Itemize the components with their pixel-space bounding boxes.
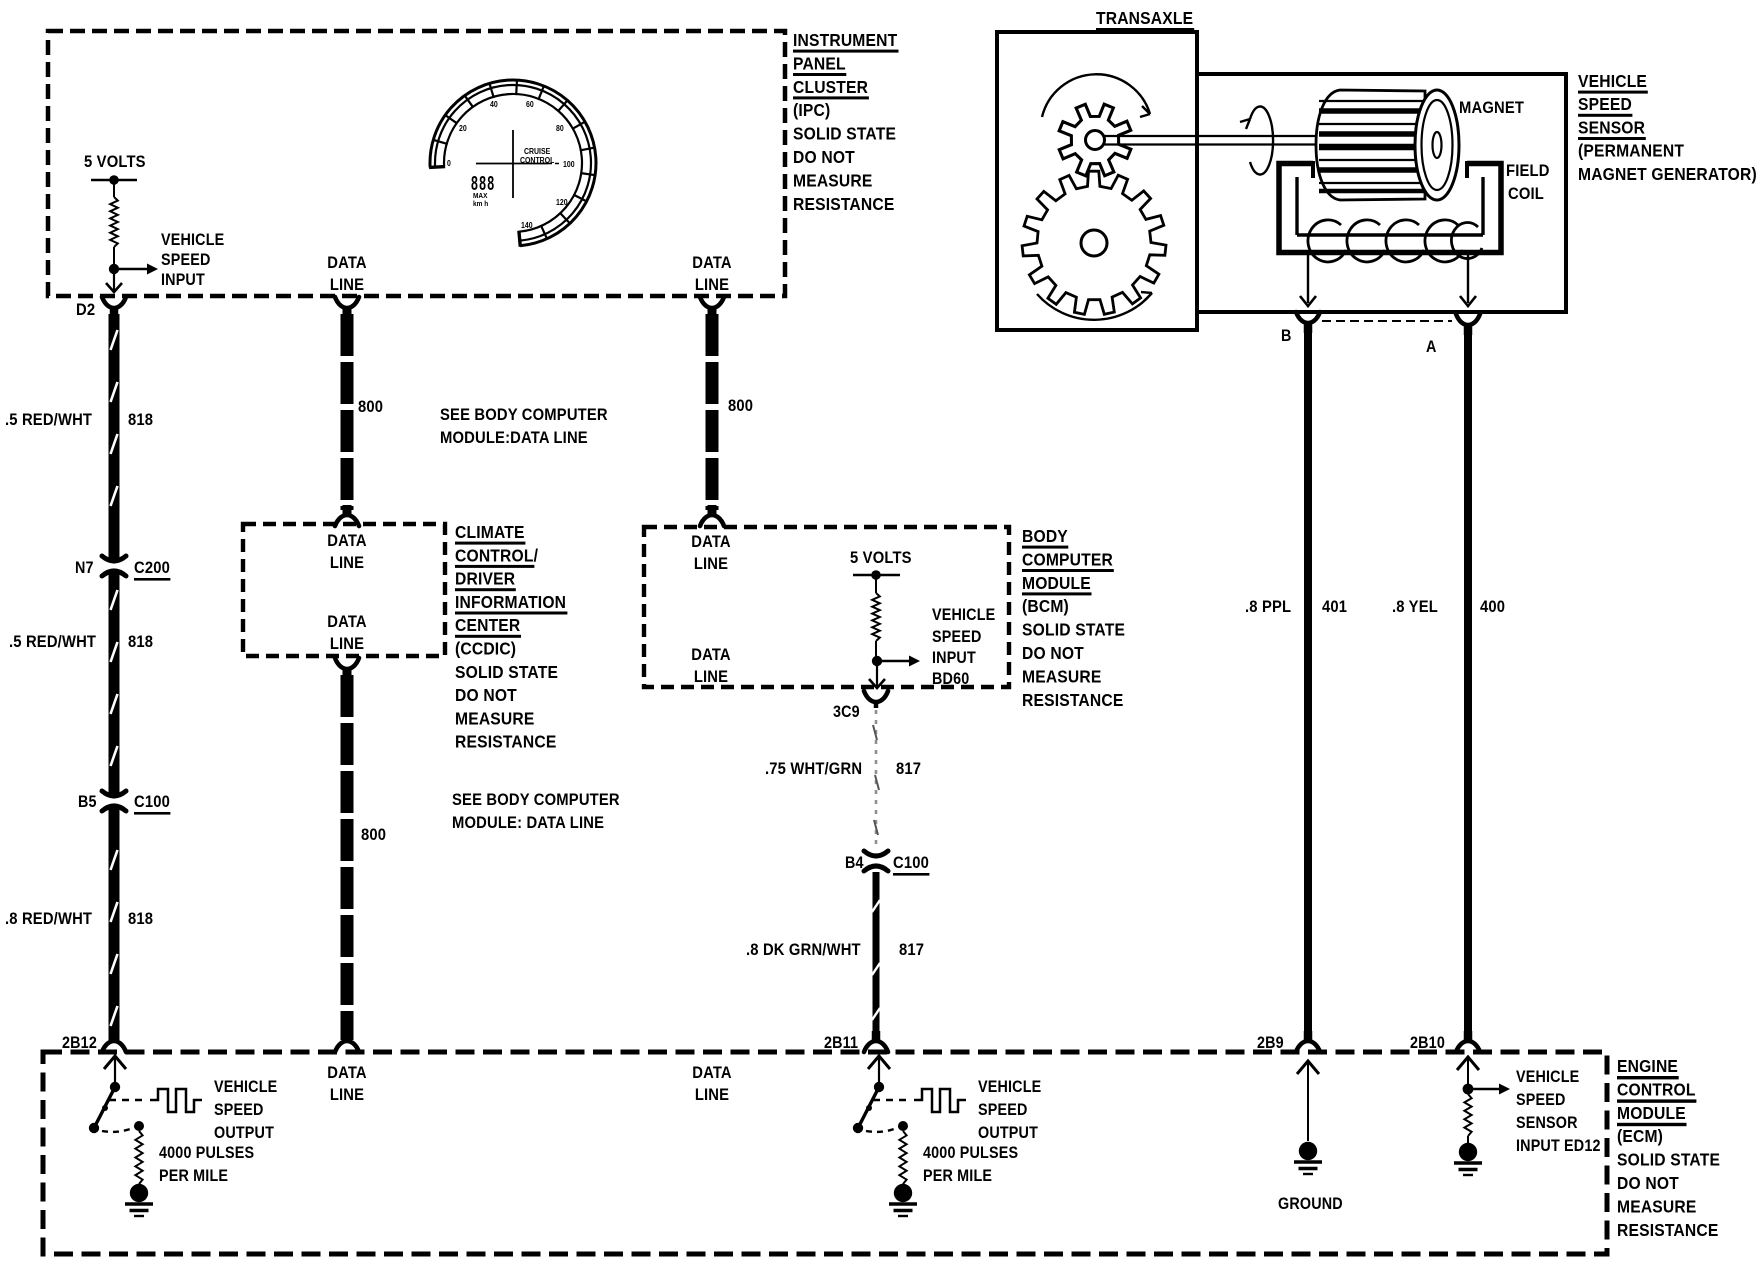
svg-text:VEHICLE: VEHICLE <box>932 606 995 624</box>
switch: ECM vehicle speed output driver (left) <box>89 1056 202 1216</box>
svg-text:800: 800 <box>728 397 753 415</box>
svg-text:B5: B5 <box>78 793 97 811</box>
svg-text:SPEED: SPEED <box>214 1101 264 1119</box>
wire: circuit 401 .8 PPL (B to 2B9) <box>1304 330 1312 1040</box>
svg-text:MODULE: MODULE <box>1022 573 1091 593</box>
label: TRANSAXLE <box>1096 8 1194 31</box>
connector: BCM data line top <box>700 505 724 526</box>
svg-text:LINE: LINE <box>330 276 364 294</box>
svg-text:SPEED: SPEED <box>161 251 211 269</box>
gauge digital odometer 888 <box>471 172 495 195</box>
module box: CLIMATE CONTROL/DRIVER INFORMATION CENTER, dashed outline <box>243 524 445 656</box>
svg-text:MODULE:DATA LINE: MODULE:DATA LINE <box>440 429 588 447</box>
arrow: vehicle speed sensor input ED12 <box>1468 1084 1510 1095</box>
label: .8 DK GRN/WHT 817 <box>746 941 924 959</box>
connector: 2B10 (ECM) <box>1456 1031 1480 1052</box>
label: ECM module title <box>1617 1056 1720 1240</box>
svg-text:OUTPUT: OUTPUT <box>978 1124 1038 1142</box>
connector: C200 pin N7 <box>102 556 126 576</box>
arrow: 2B9 into ECM <box>1297 1061 1319 1141</box>
connector: sensor terminal B <box>1296 312 1320 333</box>
svg-text:800: 800 <box>361 826 386 844</box>
label: .5 RED/WHT 818 (upper) <box>5 411 153 429</box>
label: CRUISE CONTROL (gauge) <box>520 147 555 166</box>
svg-text:C200: C200 <box>134 559 170 577</box>
svg-text:4000 PULSES: 4000 PULSES <box>159 1144 254 1162</box>
svg-text:INFORMATION: INFORMATION <box>455 592 566 612</box>
label: .8 PPL 401 <box>1245 598 1347 616</box>
label: terminal 3C9 <box>833 703 860 721</box>
resistor: BCM speed-input pull-up <box>872 575 880 656</box>
connector: D2 (IPC) <box>102 297 126 318</box>
field coil core bracket <box>1279 161 1501 253</box>
svg-text:DRIVER: DRIVER <box>455 569 515 589</box>
wire: circuit 818 RED/WHT (D2 to 2B12) <box>111 314 118 1040</box>
node: BCM vehicle speed input junction <box>872 656 882 666</box>
svg-text:km h: km h <box>473 201 488 208</box>
ground: ECM input ground <box>1454 1143 1482 1175</box>
svg-text:60: 60 <box>526 100 534 110</box>
svg-text:120: 120 <box>556 198 568 208</box>
connector: CCDIC data line bottom <box>335 658 359 679</box>
label: VEHICLE SPEED OUTPUT (left) <box>214 1078 277 1142</box>
svg-text:RESISTANCE: RESISTANCE <box>455 732 556 752</box>
svg-text:B4: B4 <box>845 854 864 872</box>
svg-text:D2: D2 <box>76 301 95 319</box>
svg-text:DATA: DATA <box>327 532 367 550</box>
label: 5 VOLTS (BCM) <box>850 549 912 567</box>
label: terminal 2B12 <box>62 1034 97 1052</box>
svg-text:4000 PULSES: 4000 PULSES <box>923 1144 1018 1162</box>
svg-text:800: 800 <box>358 398 383 416</box>
svg-text:MEASURE: MEASURE <box>793 170 872 190</box>
label: VEHICLE SPEED SENSOR title <box>1578 71 1757 184</box>
svg-text:(IPC): (IPC) <box>793 100 830 120</box>
svg-text:40: 40 <box>490 100 498 110</box>
wire: circuit 400 .8 YEL (A to 2B10) <box>1464 332 1472 1040</box>
svg-text:DATA: DATA <box>692 1064 732 1082</box>
gauge crosshair <box>476 130 562 198</box>
wire: connector dashed link B-A <box>1322 320 1452 322</box>
svg-text:0: 0 <box>447 159 451 169</box>
svg-text:CLUSTER: CLUSTER <box>793 77 868 97</box>
svg-text:VEHICLE: VEHICLE <box>1578 71 1647 91</box>
svg-text:SOLID STATE: SOLID STATE <box>455 662 558 682</box>
svg-text:RESISTANCE: RESISTANCE <box>1617 1220 1718 1240</box>
connector: 3C9 (BCM) <box>864 691 888 708</box>
svg-text:401: 401 <box>1322 598 1347 616</box>
label: CCDIC module title <box>455 522 567 752</box>
connector: sensor terminal A <box>1456 314 1480 335</box>
label: MAX km/h (gauge) <box>473 193 488 208</box>
svg-text:.8 PPL: .8 PPL <box>1245 598 1291 616</box>
svg-text:80: 80 <box>556 124 564 134</box>
svg-text:SENSOR: SENSOR <box>1578 117 1645 137</box>
svg-text:SEE BODY COMPUTER: SEE BODY COMPUTER <box>440 406 608 424</box>
label: 800 (right data line) <box>728 397 753 415</box>
svg-text:SENSOR: SENSOR <box>1516 1114 1578 1132</box>
svg-text:SPEED: SPEED <box>978 1101 1028 1119</box>
svg-text:DATA: DATA <box>327 254 367 272</box>
svg-text:SPEED: SPEED <box>932 628 982 646</box>
label: VEHICLE SPEED INPUT (IPC) <box>161 231 224 289</box>
svg-text:5 VOLTS: 5 VOLTS <box>84 153 146 171</box>
svg-text:CLIMATE: CLIMATE <box>455 522 525 542</box>
connector: 2B9 (ECM) <box>1296 1031 1320 1052</box>
svg-text:DO NOT: DO NOT <box>793 147 855 167</box>
svg-text:COIL: COIL <box>1508 185 1544 203</box>
svg-text:DATA: DATA <box>691 646 731 664</box>
gauge scale numbers <box>447 100 575 231</box>
svg-text:MAX: MAX <box>473 193 488 200</box>
label: BCM module title <box>1022 526 1125 710</box>
label: DATA LINE (CCDIC top pin) <box>327 532 367 572</box>
shaft: speedometer drive shaft <box>1103 136 1320 145</box>
label: 800 (lower left data line) <box>361 826 386 844</box>
label: B5 C100 <box>78 793 170 814</box>
connector: 2B12 (ECM) <box>102 1031 126 1052</box>
svg-text:COMPUTER: COMPUTER <box>1022 549 1113 569</box>
svg-text:DATA: DATA <box>327 613 367 631</box>
wire: circuit 817 .8 DK GRN/WHT (C100 to 2B11) <box>872 872 880 1040</box>
svg-text:SOLID STATE: SOLID STATE <box>1022 620 1125 640</box>
arrow: field coil lead B (down) <box>1300 254 1316 306</box>
svg-text:SEE BODY COMPUTER: SEE BODY COMPUTER <box>452 791 620 809</box>
svg-text:MAGNET: MAGNET <box>1459 99 1524 117</box>
svg-text:CONTROL: CONTROL <box>1617 1079 1696 1099</box>
label: terminal A <box>1426 338 1437 356</box>
module box: BODY COMPUTER MODULE (BCM), dashed outline <box>644 527 1009 687</box>
module box: INSTRUMENT PANEL CLUSTER (IPC), dashed outline <box>48 31 785 296</box>
svg-text:.8 RED/WHT: .8 RED/WHT <box>5 910 92 928</box>
resistor: ECM speed sensor input <box>1464 1094 1471 1143</box>
label: 800 (upper left data line) <box>358 398 383 416</box>
label: B4 C100 <box>845 854 929 875</box>
svg-text:PER MILE: PER MILE <box>923 1167 992 1185</box>
svg-text:817: 817 <box>896 760 921 778</box>
svg-text:DO NOT: DO NOT <box>1022 643 1084 663</box>
svg-text:818: 818 <box>128 910 153 928</box>
node: 5 volt supply rail (IPC) <box>91 175 137 185</box>
label: 4000 PULSES PER MILE (right) <box>923 1144 1018 1185</box>
svg-text:(CCDIC): (CCDIC) <box>455 638 516 658</box>
module box: ENGINE CONTROL MODULE (ECM), dashed outline <box>43 1052 1607 1254</box>
svg-text:RESISTANCE: RESISTANCE <box>1022 690 1123 710</box>
magnet: rotating permanent magnet (cylinder) <box>1316 90 1459 200</box>
svg-text:(PERMANENT: (PERMANENT <box>1578 141 1685 161</box>
gear: transaxle drive gear (small, 8 teeth) <box>1059 104 1131 176</box>
svg-text:888: 888 <box>471 172 495 195</box>
svg-text:.8 YEL: .8 YEL <box>1392 598 1438 616</box>
svg-text:.8 DK GRN/WHT: .8 DK GRN/WHT <box>746 941 861 959</box>
svg-text:817: 817 <box>899 941 924 959</box>
svg-text:MAGNET GENERATOR): MAGNET GENERATOR) <box>1578 164 1757 184</box>
arrow: field coil lead A (down) <box>1460 254 1476 306</box>
label: .8 RED/WHT 818 (lower) <box>5 910 153 928</box>
connector: IPC data line (left) <box>335 297 359 318</box>
svg-text:VEHICLE: VEHICLE <box>1516 1068 1579 1086</box>
svg-text:DATA: DATA <box>691 533 731 551</box>
label: FIELD COIL <box>1506 162 1550 203</box>
svg-text:SOLID STATE: SOLID STATE <box>1617 1150 1720 1170</box>
label: .5 RED/WHT 818 (middle) <box>9 633 153 651</box>
label: IPC module title <box>793 30 899 214</box>
svg-text:BODY: BODY <box>1022 526 1068 546</box>
svg-text:(BCM): (BCM) <box>1022 596 1069 616</box>
label: DATA LINE (IPC right data pin) <box>692 254 732 294</box>
arrow: vehicle speed input BD60 (BCM) <box>877 656 920 667</box>
svg-text:.5 RED/WHT: .5 RED/WHT <box>9 633 96 651</box>
gear: transaxle driven gear (large, 15 teeth) <box>1022 171 1166 314</box>
label: .8 YEL 400 <box>1392 598 1505 616</box>
svg-text:LINE: LINE <box>695 1086 729 1104</box>
svg-text:PANEL: PANEL <box>793 53 846 73</box>
label: VEHICLE SPEED INPUT BD60 (BCM) <box>932 606 995 688</box>
label: MAGNET <box>1459 99 1524 117</box>
svg-text:400: 400 <box>1480 598 1505 616</box>
connector: 2B11 (ECM) <box>864 1031 888 1052</box>
label: .75 WHT/GRN 817 <box>765 760 921 778</box>
node: IPC vehicle speed input junction <box>109 264 119 274</box>
svg-text:VEHICLE: VEHICLE <box>161 231 224 249</box>
svg-text:CONTROL/: CONTROL/ <box>455 545 538 565</box>
node: 5 volt supply rail (BCM) <box>853 570 900 580</box>
label: DATA LINE (ECM right pin) <box>692 1064 732 1104</box>
svg-text:C100: C100 <box>134 793 170 811</box>
svg-text:C100: C100 <box>893 854 929 872</box>
label: DATA LINE (BCM top pin) <box>691 533 731 573</box>
svg-text:LINE: LINE <box>695 276 729 294</box>
label: VEHICLE SPEED OUTPUT (right) <box>978 1078 1041 1142</box>
svg-text:INSTRUMENT: INSTRUMENT <box>793 30 898 50</box>
svg-text:DO NOT: DO NOT <box>1617 1173 1679 1193</box>
svg-text:DATA: DATA <box>327 1064 367 1082</box>
svg-text:SOLID STATE: SOLID STATE <box>793 124 896 144</box>
svg-text:818: 818 <box>128 633 153 651</box>
node: ECM speed sensor input junction <box>1463 1084 1474 1095</box>
svg-text:LINE: LINE <box>330 554 364 572</box>
svg-text:BD60: BD60 <box>932 670 969 688</box>
svg-text:LINE: LINE <box>694 555 728 573</box>
svg-text:B: B <box>1281 327 1292 345</box>
resistor: IPC speed-input pull-up <box>110 180 118 265</box>
svg-text:MEASURE: MEASURE <box>1617 1196 1696 1216</box>
label: DATA LINE (BCM bottom pin) <box>691 646 731 686</box>
label: DATA LINE (ECM left pin) <box>327 1064 367 1104</box>
svg-text:LINE: LINE <box>694 668 728 686</box>
svg-text:(ECM): (ECM) <box>1617 1126 1663 1146</box>
label: terminal 2B10 <box>1410 1034 1445 1052</box>
svg-text:VEHICLE: VEHICLE <box>214 1078 277 1096</box>
svg-text:A: A <box>1426 338 1437 356</box>
svg-text:CONTROL: CONTROL <box>520 156 555 166</box>
svg-text:MEASURE: MEASURE <box>455 708 534 728</box>
label: terminal 2B11 <box>824 1034 858 1052</box>
label: DATA LINE (CCDIC bottom pin) <box>327 613 367 653</box>
arrow: 2B10 into ECM <box>1457 1057 1479 1084</box>
svg-text:MODULE: DATA LINE: MODULE: DATA LINE <box>452 814 604 832</box>
arrow: shaft rotation <box>1240 106 1273 174</box>
svg-text:CENTER: CENTER <box>455 615 520 635</box>
arrow: small gear rotation (clockwise arc) <box>1042 74 1150 117</box>
svg-text:LINE: LINE <box>330 1086 364 1104</box>
svg-text:FIELD: FIELD <box>1506 162 1550 180</box>
arrow: large gear rotation arc <box>1037 292 1152 320</box>
wire: circuit 817 .75 WHT/GRN (3C9 to C100) <box>873 710 879 849</box>
label: terminal 2B9 <box>1257 1034 1284 1052</box>
note: SEE BODY COMPUTER MODULE:DATA LINE (upper) <box>440 406 608 447</box>
svg-text:INPUT: INPUT <box>932 649 976 667</box>
svg-text:20: 20 <box>459 124 467 134</box>
connector: ECM data line terminal (left) <box>335 1031 359 1052</box>
label: N7 C200 <box>75 559 170 580</box>
gauge: IPC speedometer arc with tick marks <box>429 79 596 247</box>
svg-text:INPUT ED12: INPUT ED12 <box>1516 1137 1601 1155</box>
connector: C100 pin B5 <box>102 791 126 811</box>
svg-text:RESISTANCE: RESISTANCE <box>793 194 894 214</box>
coil: field coil windings <box>1308 220 1482 262</box>
svg-text:SPEED: SPEED <box>1578 94 1632 114</box>
wire: data line 800 (IPC to BCM) <box>706 314 719 510</box>
svg-text:N7: N7 <box>75 559 94 577</box>
note: SEE BODY COMPUTER MODULE: DATA LINE (lower) <box>452 791 620 832</box>
svg-text:818: 818 <box>128 411 153 429</box>
svg-text:100: 100 <box>563 160 575 170</box>
arrow: wire to terminal D2 <box>106 272 122 292</box>
svg-text:DATA: DATA <box>692 254 732 272</box>
svg-text:DO NOT: DO NOT <box>455 685 517 705</box>
wire: data line 800 (IPC to CCDIC) <box>341 314 354 510</box>
svg-text:3C9: 3C9 <box>833 703 860 721</box>
svg-text:MODULE: MODULE <box>1617 1103 1686 1123</box>
label: GROUND <box>1278 1195 1343 1213</box>
svg-text:PER MILE: PER MILE <box>159 1167 228 1185</box>
svg-text:5 VOLTS: 5 VOLTS <box>850 549 912 567</box>
svg-text:MEASURE: MEASURE <box>1022 666 1101 686</box>
wire: data line 800 (CCDIC to ECM) <box>341 675 354 1040</box>
svg-text:140: 140 <box>521 221 533 231</box>
svg-text:.75 WHT/GRN: .75 WHT/GRN <box>765 760 862 778</box>
svg-text:VEHICLE: VEHICLE <box>978 1078 1041 1096</box>
label: terminal B <box>1281 327 1292 345</box>
module box: TRANSAXLE, solid outline <box>997 32 1197 330</box>
gear mesh overlap (small gear outline) <box>1059 104 1131 176</box>
connector: IPC data line (right) <box>700 297 724 318</box>
arrow: vehicle speed input (IPC) <box>114 264 158 275</box>
svg-text:.5 RED/WHT: .5 RED/WHT <box>5 411 92 429</box>
svg-text:ENGINE: ENGINE <box>1617 1056 1678 1076</box>
svg-text:OUTPUT: OUTPUT <box>214 1124 274 1142</box>
label: 5 VOLTS (IPC) <box>84 153 146 171</box>
connector: CCDIC data line top <box>335 505 359 526</box>
svg-text:SPEED: SPEED <box>1516 1091 1566 1109</box>
label: DATA LINE (IPC left data pin) <box>327 254 367 294</box>
label: terminal D2 <box>76 301 95 319</box>
label: VEHICLE SPEED SENSOR INPUT ED12 <box>1516 1068 1601 1155</box>
arrow: wire to terminal 3C9 <box>869 664 885 688</box>
svg-text:LINE: LINE <box>330 635 364 653</box>
label: 4000 PULSES PER MILE (left) <box>159 1144 254 1185</box>
module box: VEHICLE SPEED SENSOR, solid outline <box>1197 74 1566 312</box>
connector: C100 pin B4 <box>864 851 888 871</box>
svg-text:GROUND: GROUND <box>1278 1195 1343 1213</box>
svg-text:INPUT: INPUT <box>161 271 205 289</box>
ground: ECM sensor ground <box>1294 1142 1322 1174</box>
switch: ECM vehicle speed output driver (right) <box>853 1056 966 1216</box>
svg-text:TRANSAXLE: TRANSAXLE <box>1096 8 1193 28</box>
